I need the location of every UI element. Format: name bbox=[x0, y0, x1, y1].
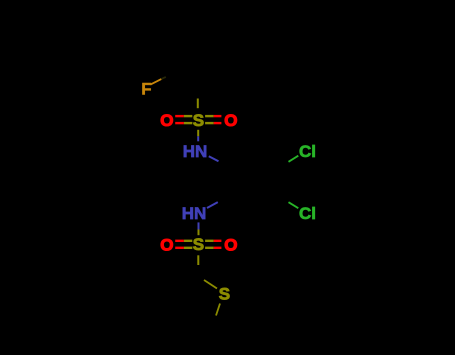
svg-text:O: O bbox=[160, 111, 173, 130]
svg-text:O: O bbox=[224, 111, 237, 130]
svg-text:HN: HN bbox=[182, 204, 207, 223]
svg-text:F: F bbox=[141, 79, 151, 98]
svg-text:S: S bbox=[193, 111, 204, 130]
svg-text:HN: HN bbox=[183, 142, 208, 161]
svg-text:S: S bbox=[193, 235, 204, 254]
svg-text:O: O bbox=[160, 235, 173, 254]
svg-text:S: S bbox=[219, 284, 230, 303]
svg-text:O: O bbox=[224, 235, 237, 254]
svg-text:Cl: Cl bbox=[299, 204, 316, 223]
svg-text:Cl: Cl bbox=[299, 142, 316, 161]
